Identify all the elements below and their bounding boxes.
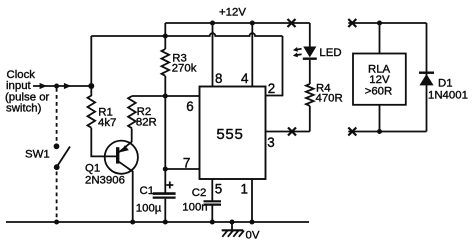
capacitor C2 xyxy=(204,201,222,204)
wire LED anode to +12V rail xyxy=(309,23,311,47)
wire R4 bottom to pin 3 wire xyxy=(309,106,311,132)
svg-text:0V: 0V xyxy=(246,230,260,242)
svg-text:switch): switch) xyxy=(6,103,42,115)
junction dot ground symbol on 0V rail xyxy=(230,220,235,225)
svg-text:555: 555 xyxy=(216,126,243,143)
op-amp/IC U1 555 box xyxy=(200,87,266,180)
svg-text:8: 8 xyxy=(215,71,222,86)
svg-text:7: 7 xyxy=(183,156,190,171)
resistor R3 xyxy=(162,49,170,76)
capacitor C1 xyxy=(153,194,176,198)
junction dot pin 1 on 0V rail xyxy=(250,220,255,225)
junction dot trigger rail to R3 branch xyxy=(163,34,168,39)
svg-text:270k: 270k xyxy=(172,63,197,75)
svg-text:82R: 82R xyxy=(136,117,157,129)
ground symbol xyxy=(222,222,244,237)
wire pin 8 to +12V rail xyxy=(212,23,214,87)
wire relay top to +12V rail xyxy=(379,23,381,54)
svg-text:6: 6 xyxy=(186,99,193,114)
wire pin 3 output xyxy=(266,131,310,133)
wire input node up to trigger rail xyxy=(90,36,92,86)
wire C2 to 0V rail xyxy=(211,206,213,223)
transistor Q1 body circle xyxy=(105,141,138,174)
wire R3 bottom through pin6/pin7 junctions to C1 xyxy=(164,76,166,193)
svg-text:100µ: 100µ xyxy=(136,202,162,214)
wire pin 5 to C2 xyxy=(211,179,213,201)
transistor Q1 collector xyxy=(119,162,133,222)
switch SW1 xyxy=(54,143,70,170)
svg-text:4k7: 4k7 xyxy=(98,117,116,129)
wire 0V bottom rail xyxy=(6,221,309,223)
junction dot input to SW1 dashed branch xyxy=(54,84,59,89)
wire R3 top to +12V rail xyxy=(164,23,166,49)
junction dot pin7 wire and C1 line xyxy=(163,167,168,172)
junction dot C1 on 0V rail xyxy=(163,220,168,225)
connection X mark at left end of relay bottom wire xyxy=(348,128,356,136)
svg-text:5: 5 xyxy=(215,182,222,197)
svg-text:+12V: +12V xyxy=(219,7,246,19)
wire pin 1 to 0V rail xyxy=(251,179,253,222)
junction dot pin8 wire on +12V rail xyxy=(210,21,215,26)
wire clock input lead xyxy=(33,85,91,87)
relay RLA coil box xyxy=(353,54,406,105)
svg-text:1: 1 xyxy=(241,182,248,197)
wire relay bottom to output rail xyxy=(379,105,381,132)
wire pin 7 to timing node xyxy=(165,168,199,170)
wire relay bottom output rail xyxy=(348,131,426,133)
resistor R1 xyxy=(88,86,96,128)
junction dot SW1 branch on 0V rail xyxy=(54,220,59,225)
transistor Q1 base bar xyxy=(116,147,119,163)
wire dashed link input to SW1 xyxy=(56,88,58,142)
capacitor C1 polarity plus xyxy=(166,182,173,189)
junction dot Q1 collector on 0V rail xyxy=(130,220,135,225)
wire trigger rail y36 with hops over pin8 and pin4 wires xyxy=(91,33,282,36)
svg-text:100n: 100n xyxy=(182,202,207,214)
LED diode triangle and bar xyxy=(303,47,317,59)
wire dashed link SW1 to 0V rail xyxy=(56,172,58,223)
transistor Q1 emitter with arrow (PNP) xyxy=(119,142,132,152)
wire down to pin 2 xyxy=(266,36,283,96)
connection X mark on pin 3 wire xyxy=(288,128,296,136)
junction dot C2 on 0V rail xyxy=(210,220,215,225)
wire D1 across relay xyxy=(426,23,428,132)
svg-text:LED: LED xyxy=(319,47,341,59)
wire R2 bottom to Q1 emitter xyxy=(131,128,133,142)
wire +12V top rail right (relay) segment xyxy=(348,22,426,24)
svg-text:SW1: SW1 xyxy=(25,149,50,161)
junction dot relay bottom wire xyxy=(377,129,382,134)
svg-text:12V: 12V xyxy=(369,74,390,86)
junction dot pin6 wire and R3 line xyxy=(163,94,168,99)
wire pin 4 to +12V rail xyxy=(251,23,253,87)
junction dot relay feed on +12V rail xyxy=(377,21,382,26)
junction dot pin4 wire on +12V rail xyxy=(250,21,255,26)
svg-text:D1: D1 xyxy=(438,78,453,90)
resistor R4 xyxy=(306,84,314,106)
svg-text:470R: 470R xyxy=(316,92,343,104)
junction dot input node at R1 top xyxy=(88,83,94,89)
wire LED cathode to R4 xyxy=(309,60,311,84)
svg-text:2: 2 xyxy=(268,81,275,96)
arrowhead on clock input lead xyxy=(40,83,47,89)
diode D1 xyxy=(419,73,434,86)
LED light emission arrows xyxy=(293,47,302,57)
resistor R2 xyxy=(128,96,136,128)
connection X mark at left end of relay top rail xyxy=(348,19,356,27)
svg-text:3: 3 xyxy=(267,135,274,150)
wire R1 bottom to Q1 base xyxy=(91,128,116,157)
svg-text:Q1: Q1 xyxy=(85,162,100,174)
arrowhead direction marker mid input wire xyxy=(64,83,71,89)
connection X mark on +12V rail xyxy=(288,19,296,27)
wire C1 to 0V rail xyxy=(164,199,166,222)
svg-text:input: input xyxy=(6,80,32,92)
svg-text:4: 4 xyxy=(241,71,249,86)
svg-text:C2: C2 xyxy=(192,187,207,199)
svg-text:C1: C1 xyxy=(140,185,155,197)
svg-text:1N4001: 1N4001 xyxy=(428,89,468,101)
wire +12V top rail left segment xyxy=(165,22,309,24)
wire pin 6 to timing node xyxy=(132,95,200,97)
svg-text:>60R: >60R xyxy=(365,86,393,98)
svg-text:2N3906: 2N3906 xyxy=(85,175,125,187)
